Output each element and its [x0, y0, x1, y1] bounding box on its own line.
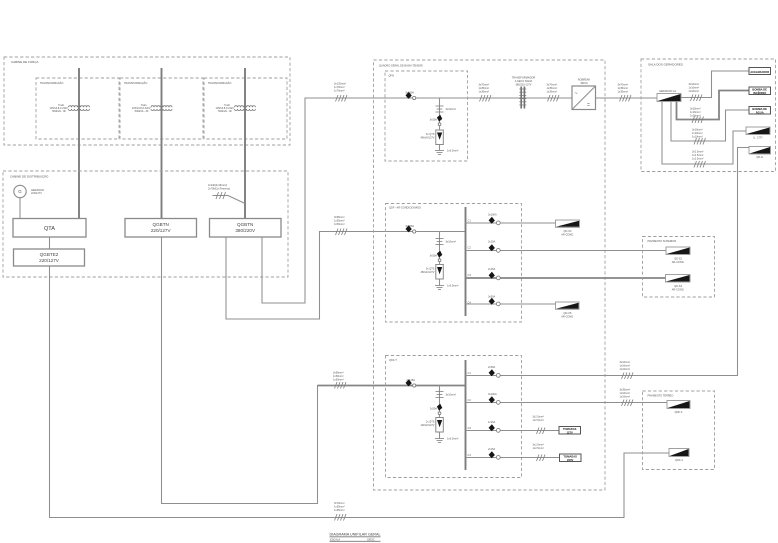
- svg-text:QD-C5: QD-C5: [564, 311, 573, 315]
- svg-text:45kVA/127V: 45kVA/127V: [421, 270, 435, 274]
- cable marker circuit C2 qdf-t: [620, 388, 634, 407]
- node C2: [468, 246, 472, 250]
- svg-text:QD-S2: QD-S2: [674, 257, 682, 261]
- svg-text:3x70mm²: 3x70mm²: [334, 501, 345, 505]
- panel QGBTE2 220/127V: [14, 249, 85, 266]
- svg-text:QGBTN: QGBTN: [153, 222, 169, 227]
- svg-text:500kVA - 3F: 500kVA - 3F: [52, 109, 66, 113]
- svg-text:QGBTN: QGBTN: [237, 222, 253, 227]
- svg-text:C3: C3: [468, 426, 472, 430]
- svg-text:3x2.5mm²: 3x2.5mm²: [533, 443, 544, 447]
- svg-text:220/127V: 220/127V: [39, 258, 60, 263]
- svg-text:QD-G: QD-G: [756, 155, 763, 159]
- cable tap 4x240mm2 on bus 3: [208, 183, 245, 204]
- svg-text:TOMADAS: TOMADAS: [563, 427, 577, 431]
- svg-text:AR-COND.: AR-COND.: [672, 287, 685, 291]
- svg-text:1x16mm²: 1x16mm²: [620, 391, 631, 395]
- wire QGBTN 380/220V feeder A to QDF ar-cond: [226, 232, 466, 320]
- cable marker 3x70mm2 on QGBTE2 feeder: [334, 501, 346, 521]
- nobreak 30kVA: [572, 78, 596, 110]
- svg-text:3x2.5mm²: 3x2.5mm²: [692, 150, 703, 154]
- svg-text:1x16mm²: 1x16mm²: [620, 363, 631, 367]
- svg-text:QDF - AR-CONDICIONADO: QDF - AR-CONDICIONADO: [389, 206, 421, 210]
- transformer QTS qdf-t: [421, 418, 444, 433]
- wire QTA to QGBTE2: [49, 237, 51, 249]
- wire QGBTN 220/127V feeder to QDF-T: [162, 237, 318, 504]
- cable marker route B: [690, 107, 704, 124]
- node C2 qdf-t: [468, 398, 472, 402]
- svg-text:220V: 220V: [567, 458, 573, 462]
- svg-text:1x35mm²: 1x35mm²: [547, 86, 558, 90]
- breaker 2x50A circuit C1 + wire to QD-G: [466, 148, 750, 378]
- enclosure QFN: [385, 71, 468, 161]
- feeder arrow QDF-4: [669, 449, 689, 463]
- cable marker before sala geradores: [618, 83, 632, 102]
- cable marker circuit C4: [533, 443, 546, 462]
- svg-text:2x15A: 2x15A: [488, 267, 496, 271]
- svg-text:1x10mm²: 1x10mm²: [692, 134, 703, 138]
- svg-text:C3: C3: [468, 273, 472, 277]
- svg-text:3x16mm²: 3x16mm²: [689, 82, 700, 86]
- load BOMBA INCENDIO: [749, 87, 771, 95]
- svg-text:1x35mm²: 1x35mm²: [618, 89, 629, 93]
- breaker 2x15A circuit C3: [466, 267, 667, 280]
- load TOMADAS 220V: [560, 454, 582, 462]
- cable marker after transformer: [547, 83, 560, 102]
- svg-text:1x16mm²: 1x16mm²: [690, 113, 701, 117]
- svg-text:QDF-4: QDF-4: [675, 458, 683, 462]
- transformer QTS QFN: [421, 130, 444, 145]
- breaker 2x50A qdf-t branch: [430, 404, 443, 415]
- svg-text:TOMADAS: TOMADAS: [563, 454, 577, 458]
- svg-text:1x35mm²: 1x35mm²: [618, 86, 629, 90]
- wire route C to bomba agua: [671, 102, 749, 142]
- svg-text:=: =: [587, 103, 590, 109]
- feeder arrow QDF-3: [667, 401, 690, 415]
- breaker 3x50A ar-cond branch: [430, 251, 443, 262]
- enclosure PAVIMENTO SUPERIOR: [643, 237, 715, 298]
- svg-text:30kVA: 30kVA: [580, 81, 588, 85]
- ground qdf-t branch: [435, 437, 458, 443]
- enclosure QDF AR-CONDICIONADO: [386, 204, 522, 323]
- svg-text:1x6.0mm²: 1x6.0mm²: [447, 437, 458, 441]
- enclosure CABINE DE FORCA: [4, 57, 290, 145]
- svg-text:2x15A: 2x15A: [488, 240, 496, 244]
- svg-text:1x16mm²: 1x16mm²: [689, 89, 700, 93]
- svg-text:3x16mm²: 3x16mm²: [620, 360, 631, 364]
- svg-text:BOMBA DE: BOMBA DE: [752, 107, 767, 111]
- svg-text:3x35mm²: 3x35mm²: [620, 388, 631, 392]
- feeder arrow QD-C4: [556, 220, 580, 236]
- svg-text:QGBTE2: QGBTE2: [40, 252, 59, 257]
- wire qdf-t branch: [439, 386, 441, 439]
- wire route D to il. city: [662, 102, 746, 165]
- svg-text:3x10mm²: 3x10mm²: [446, 393, 457, 397]
- svg-text:C4: C4: [468, 453, 472, 457]
- breaker 2x125A: [406, 378, 416, 387]
- svg-text:10kVA/127V: 10kVA/127V: [421, 423, 435, 427]
- svg-text:1x35mm²: 1x35mm²: [479, 86, 490, 90]
- svg-text:220/127V: 220/127V: [151, 228, 172, 233]
- svg-text:~: ~: [575, 91, 578, 97]
- svg-text:AR-COND.: AR-COND.: [561, 314, 574, 318]
- svg-text:PAVIMENTO SUPERIOR: PAVIMENTO SUPERIOR: [648, 239, 677, 243]
- busbar qdf-t: [465, 360, 467, 470]
- node C3: [468, 273, 472, 277]
- svg-text:500kVA - 3F: 500kVA - 3F: [135, 109, 149, 113]
- svg-text:QDF-3: QDF-3: [675, 410, 683, 414]
- svg-text:1x35mm²: 1x35mm²: [334, 508, 345, 512]
- svg-text:C1: C1: [468, 219, 472, 223]
- wire bus 1: [78, 68, 80, 219]
- breaker 3x50A QFN branch: [430, 115, 443, 126]
- svg-text:500kVA - 3F: 500kVA - 3F: [218, 109, 232, 113]
- enclosure TRANSFORMACAO 2: [120, 78, 203, 139]
- breaker 3x50A circuit C4: [466, 295, 557, 306]
- svg-text:1x35mm²: 1x35mm²: [547, 89, 558, 93]
- feeder arrow GERADOR G1: [657, 89, 681, 102]
- panel QGBTN 220/127V: [125, 219, 197, 238]
- svg-text:AR-COND.: AR-COND.: [672, 260, 685, 264]
- enclosure CABINE DE DISTRIBUICAO: [3, 171, 288, 277]
- cable marker after QFN: [479, 83, 492, 102]
- enclosure QUADRO GERAL BT: [374, 60, 606, 490]
- cable marker 3x120mm2 on feeder B: [334, 82, 347, 102]
- svg-text:1x2.5mm²: 1x2.5mm²: [533, 446, 544, 450]
- cable marker route D: [692, 150, 706, 168]
- svg-text:2x50A: 2x50A: [488, 365, 496, 369]
- ground ar-cond branch: [435, 284, 458, 290]
- svg-text:1x70mm²: 1x70mm²: [334, 85, 345, 89]
- svg-text:3x50A: 3x50A: [488, 295, 496, 299]
- breaker 1x15A circuit C3: [466, 420, 560, 432]
- svg-text:1x50mm²: 1x50mm²: [334, 222, 345, 226]
- svg-text:3x50A: 3x50A: [430, 254, 438, 258]
- svg-text:CABINE DE DISTRIBUIÇÃO: CABINE DE DISTRIBUIÇÃO: [10, 174, 49, 179]
- svg-text:QDF-T: QDF-T: [389, 358, 397, 362]
- svg-text:380/220V: 380/220V: [235, 228, 256, 233]
- breaker 2x15A circuit C4: [466, 447, 560, 459]
- svg-text:QUADRO GERAL DE BAIXA TENSÃO: QUADRO GERAL DE BAIXA TENSÃO: [379, 62, 423, 67]
- svg-text:3x70mm²: 3x70mm²: [479, 83, 490, 87]
- svg-text:QTA: QTA: [44, 226, 55, 232]
- svg-text:1x16mm²: 1x16mm²: [620, 394, 631, 398]
- transformer QTS ar-cond: [421, 265, 444, 280]
- svg-text:4x240(4x16mm²): 4x240(4x16mm²): [208, 183, 227, 187]
- enclosure TRANSFORMACAO 1: [36, 78, 119, 139]
- wire route A to acelerador: [681, 71, 749, 98]
- title DIAGRAMA UNIFILAR GERAL: [330, 533, 381, 542]
- svg-text:TRANSFORMAÇÃO: TRANSFORMAÇÃO: [208, 80, 231, 85]
- capacitor QFN branch: [436, 106, 457, 112]
- busbar ar-cond: [465, 207, 467, 316]
- cable marker circuit C3: [533, 415, 546, 435]
- cable marker 3x95mm2 on QDF-T feeder: [333, 371, 346, 389]
- svg-text:1x16mm²: 1x16mm²: [620, 367, 631, 371]
- svg-text:1x16mm²: 1x16mm²: [690, 110, 701, 114]
- feeder arrow QD-C5: [556, 302, 580, 318]
- wire QGBTE2 feeder to QDF-4: [50, 266, 670, 518]
- svg-text:AR-COND.: AR-COND.: [561, 232, 574, 236]
- breaker 3x250A: [405, 224, 415, 233]
- svg-text:ACELERADOR: ACELERADOR: [750, 70, 769, 74]
- svg-text:1x2.5mm²: 1x2.5mm²: [533, 418, 544, 422]
- svg-text:1x2.5mm²: 1x2.5mm²: [692, 153, 703, 157]
- svg-text:3x10mm²: 3x10mm²: [692, 128, 703, 132]
- cable marker route C: [692, 128, 706, 145]
- wire G to QTA: [19, 198, 21, 219]
- feeder arrow IL. CITY: [746, 127, 770, 140]
- svg-text:3x QTS: 3x QTS: [426, 132, 435, 136]
- svg-text:1x10mm²: 1x10mm²: [692, 131, 703, 135]
- wire ar-cond branch: [439, 232, 441, 286]
- capacitor ar-cond branch: [436, 239, 457, 245]
- svg-text:C2: C2: [468, 398, 472, 402]
- svg-text:1x2.5mm²: 1x2.5mm²: [692, 156, 703, 160]
- svg-text:45kVA/127V: 45kVA/127V: [421, 135, 435, 139]
- panel QGBTN 380/220V: [210, 219, 282, 238]
- svg-text:3x10mm²: 3x10mm²: [446, 240, 457, 244]
- svg-text:2x70N(2x Reserva): 2x70N(2x Reserva): [208, 186, 230, 190]
- wire bus 2: [161, 68, 163, 219]
- svg-text:380/220-127V: 380/220-127V: [515, 82, 531, 86]
- feeder arrow QD-G: [749, 147, 771, 160]
- svg-text:1x50mm²: 1x50mm²: [333, 377, 344, 381]
- svg-text:GERADOR G1: GERADOR G1: [659, 89, 677, 93]
- svg-text:TRANSFORMAÇÃO: TRANSFORMAÇÃO: [124, 80, 147, 85]
- transformer TR3: [215, 103, 255, 113]
- svg-text:1x6.0mm²: 1x6.0mm²: [447, 149, 458, 153]
- svg-text:QFN: QFN: [389, 74, 395, 78]
- node C4: [468, 301, 472, 305]
- svg-text:1x35mm²: 1x35mm²: [334, 504, 345, 508]
- svg-text:3x QTS: 3x QTS: [426, 267, 435, 271]
- svg-text:2x50A: 2x50A: [430, 407, 438, 411]
- svg-text:DIAGRAMA UNIFILAR GERAL: DIAGRAMA UNIFILAR GERAL: [330, 533, 381, 537]
- cable marker route A: [689, 82, 703, 101]
- node C3 qdf-t: [468, 426, 472, 430]
- svg-text:QD-C4: QD-C4: [564, 229, 573, 233]
- cable marker circuit C1 qdf-t: [620, 360, 634, 379]
- transformer TR1: [49, 103, 89, 113]
- transformer TR2: [132, 103, 172, 113]
- svg-text:1x50mm²: 1x50mm²: [333, 374, 344, 378]
- enclosure TRANSFORMACAO 3: [204, 78, 287, 139]
- svg-text:3x95mm²: 3x95mm²: [333, 371, 344, 375]
- svg-text:C2: C2: [468, 246, 472, 250]
- svg-text:3x10mm²: 3x10mm²: [446, 107, 457, 111]
- svg-text:3x95mm²: 3x95mm²: [334, 215, 345, 219]
- enclosure QDF-T: [386, 356, 522, 478]
- wire bus 3: [244, 68, 246, 219]
- svg-text:SALA DOS GERADORES: SALA DOS GERADORES: [648, 63, 683, 67]
- enclosure PAVIMENTO TERREO: [643, 391, 715, 470]
- panel QTA: [13, 219, 86, 238]
- svg-text:G: G: [18, 189, 22, 194]
- enclosure SALA DOS GERADORES: [641, 59, 776, 172]
- svg-text:3x50A: 3x50A: [430, 118, 438, 122]
- svg-text:3x2.5mm²: 3x2.5mm²: [533, 415, 544, 419]
- svg-text:C1: C1: [468, 371, 472, 375]
- svg-text:1x15A: 1x15A: [488, 420, 496, 424]
- svg-text:2x15A: 2x15A: [488, 447, 496, 451]
- transformer a seco 30kVA: [512, 76, 536, 109]
- svg-text:IL. CITY: IL. CITY: [753, 136, 763, 140]
- svg-text:PAVIMENTO TÉRREO: PAVIMENTO TÉRREO: [648, 393, 674, 398]
- breaker 2x15A circuit C2: [466, 240, 667, 253]
- svg-text:3x120mm²: 3x120mm²: [334, 82, 346, 86]
- svg-text:A SECO 30kVA: A SECO 30kVA: [515, 79, 533, 83]
- svg-text:3x25mm²: 3x25mm²: [690, 107, 701, 111]
- svg-text:220/127V: 220/127V: [31, 191, 42, 195]
- wire QGBTN 380/220V feeder B to QFN / nobreak: [262, 98, 657, 303]
- svg-text:1x QTS: 1x QTS: [426, 420, 435, 424]
- svg-text:1x50mm²: 1x50mm²: [334, 218, 345, 222]
- svg-text:TRANSFORMAÇÃO: TRANSFORMAÇÃO: [40, 80, 63, 85]
- wire QFN branch: [439, 98, 441, 151]
- load TOMADAS 127V: [559, 427, 581, 435]
- load BOMBA AGUA: [749, 107, 771, 115]
- svg-text:NOBREAK: NOBREAK: [578, 78, 591, 82]
- svg-text:1x35mm²: 1x35mm²: [479, 89, 490, 93]
- svg-text:3x100A: 3x100A: [488, 213, 497, 217]
- svg-text:127V: 127V: [567, 430, 573, 434]
- svg-text:QD-S3: QD-S3: [674, 284, 682, 288]
- breaker 3x100A circuit C2 + wire to QDF-3: [466, 392, 669, 404]
- load ACELERADOR: [749, 68, 771, 75]
- wire QDF-T main line: [318, 385, 466, 387]
- node C1 qdf-t: [468, 371, 472, 375]
- svg-text:1x16mm²: 1x16mm²: [689, 85, 700, 89]
- wire route B to bomba incendio: [677, 91, 750, 120]
- feeder arrow QD-S2: [666, 247, 690, 264]
- breaker 3x100A circuit C1: [466, 213, 557, 225]
- svg-text:3x100A: 3x100A: [488, 392, 497, 396]
- svg-text:1x6.0mm²: 1x6.0mm²: [447, 284, 458, 288]
- svg-text:CABINE DE FORÇA: CABINE DE FORÇA: [11, 60, 39, 64]
- node C1: [468, 219, 472, 223]
- svg-text:3x70mm²: 3x70mm²: [618, 83, 629, 87]
- node C4 qdf-t: [468, 453, 472, 457]
- breaker 3x160A: [405, 91, 415, 100]
- generator G: [14, 185, 44, 197]
- svg-text:TRANSFORMADOR: TRANSFORMADOR: [512, 76, 536, 80]
- svg-text:BOMBA DE: BOMBA DE: [752, 87, 767, 91]
- ground QFN branch: [435, 149, 458, 155]
- svg-text:1x70mm²: 1x70mm²: [334, 88, 345, 92]
- feeder arrow QD-S3: [666, 275, 691, 292]
- cable marker 3x95mm2 on feeder A: [334, 215, 347, 235]
- svg-text:3x70mm²: 3x70mm²: [547, 83, 558, 87]
- capacitor qdf-t branch: [436, 392, 457, 398]
